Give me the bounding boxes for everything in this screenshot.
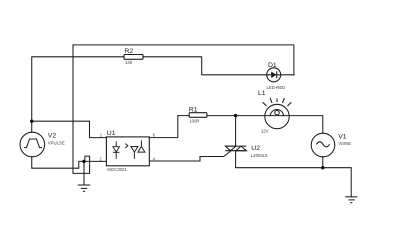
svg-text:LED-RED: LED-RED <box>267 85 286 90</box>
svg-text:100R: 100R <box>189 118 199 123</box>
svg-text:D1: D1 <box>268 62 277 69</box>
svg-text:U1: U1 <box>107 130 116 137</box>
svg-text:L2004L5: L2004L5 <box>251 153 268 158</box>
svg-text:VSINE: VSINE <box>338 141 351 146</box>
svg-text:R2: R2 <box>125 48 134 55</box>
svg-text:L1: L1 <box>258 90 266 97</box>
svg-text:130: 130 <box>125 60 133 65</box>
svg-text:R1: R1 <box>189 106 198 113</box>
svg-text:MOC3021: MOC3021 <box>107 167 127 172</box>
svg-text:12V: 12V <box>261 129 269 134</box>
svg-text:V1: V1 <box>338 134 347 141</box>
svg-text:V2: V2 <box>48 133 57 140</box>
svg-text:VPULSE: VPULSE <box>48 141 65 146</box>
svg-text:U2: U2 <box>251 145 260 152</box>
